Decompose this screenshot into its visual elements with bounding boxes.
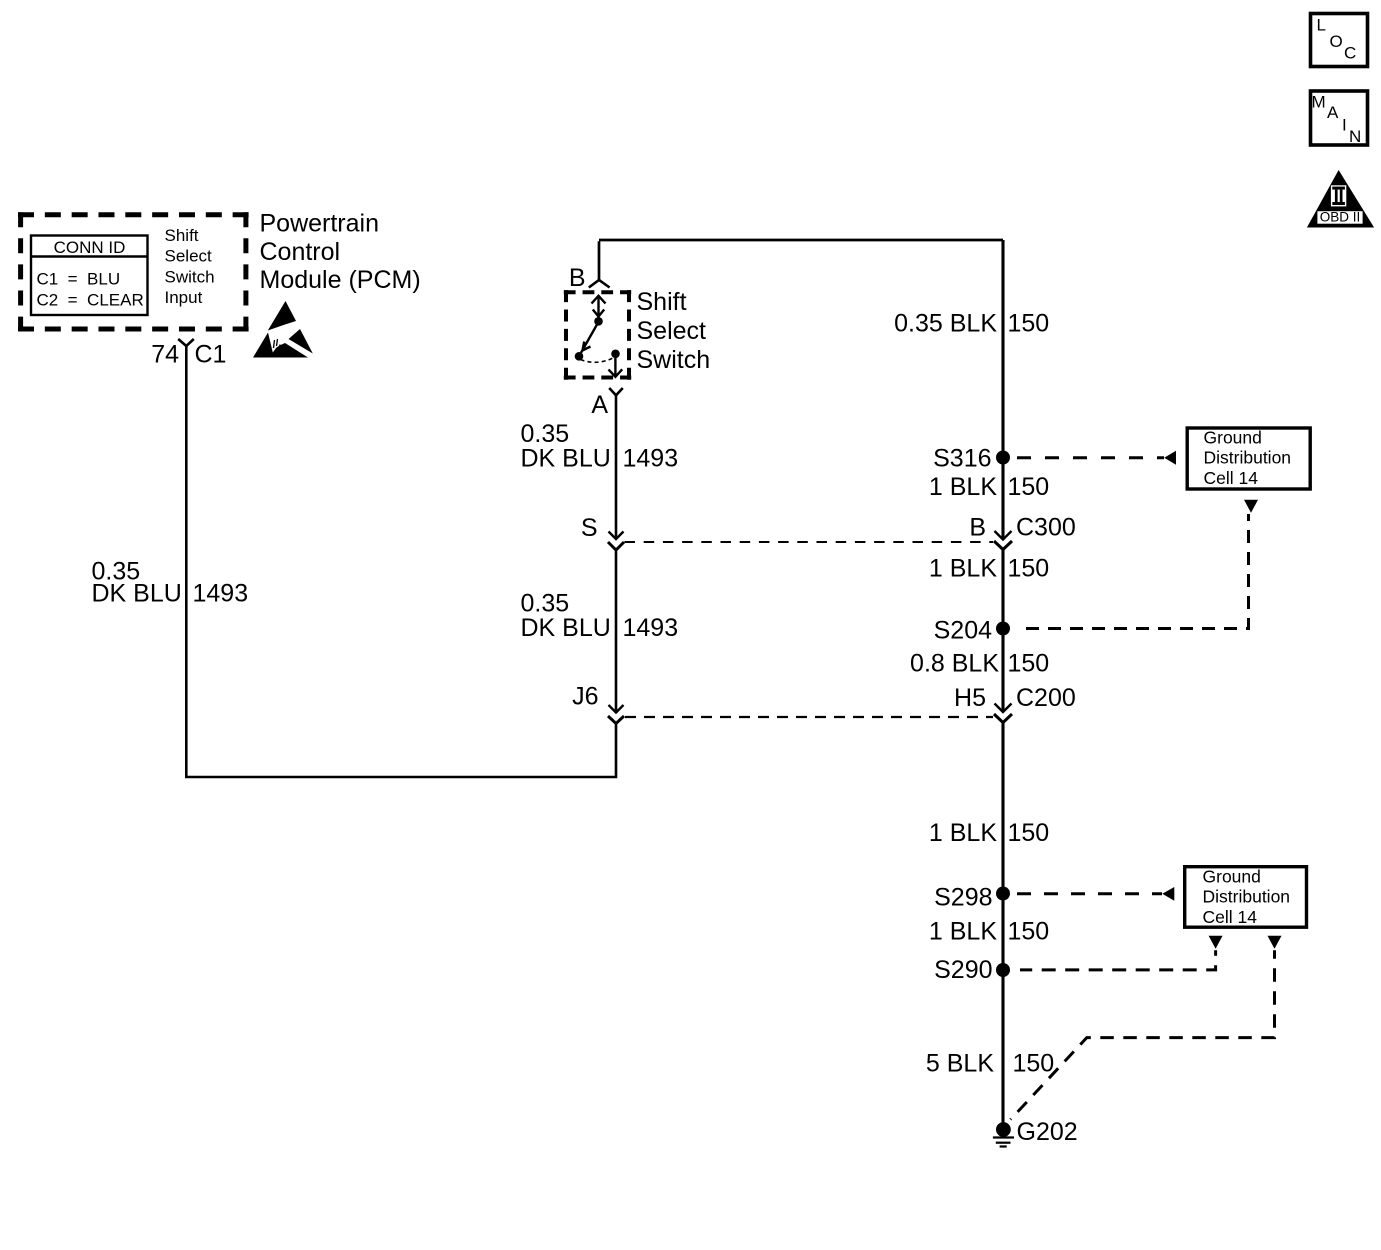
svg-text:DK BLU: DK BLU: [521, 445, 611, 473]
svg-text:150: 150: [1008, 555, 1050, 583]
svg-text:Switch: Switch: [165, 267, 215, 286]
svg-text:C300: C300: [1016, 514, 1076, 542]
svg-text:Distribution: Distribution: [1203, 887, 1291, 907]
svg-text:1 BLK: 1 BLK: [929, 555, 997, 583]
svg-text:Cell 14: Cell 14: [1204, 468, 1259, 488]
svg-text:H5: H5: [954, 684, 986, 712]
svg-text:S290: S290: [934, 956, 992, 984]
svg-text:O: O: [1330, 32, 1343, 51]
svg-text:G202: G202: [1017, 1118, 1078, 1146]
svg-text:S: S: [581, 514, 598, 542]
svg-text:Distribution: Distribution: [1204, 448, 1292, 468]
svg-text:Shift: Shift: [165, 226, 199, 245]
svg-text:DK BLU: DK BLU: [92, 580, 182, 608]
svg-text:74: 74: [151, 341, 179, 369]
svg-text:1493: 1493: [623, 445, 679, 473]
svg-text:Control: Control: [260, 238, 341, 266]
svg-text:B: B: [569, 264, 586, 292]
svg-text:B: B: [969, 514, 986, 542]
svg-text:Ground: Ground: [1204, 428, 1262, 448]
svg-text:0.8 BLK: 0.8 BLK: [910, 650, 999, 678]
svg-text:Input: Input: [165, 288, 203, 307]
svg-text:C200: C200: [1016, 684, 1076, 712]
svg-text:1 BLK: 1 BLK: [929, 819, 997, 847]
svg-text:Module (PCM): Module (PCM): [260, 266, 421, 294]
svg-text:S316: S316: [933, 445, 991, 473]
svg-text:A: A: [1327, 103, 1339, 122]
svg-text:Select: Select: [165, 247, 213, 266]
svg-text:J6: J6: [572, 683, 598, 711]
svg-text:DK BLU: DK BLU: [521, 614, 611, 642]
svg-text:C1 = BLU: C1 = BLU: [37, 270, 121, 289]
svg-text:Select: Select: [637, 317, 707, 345]
svg-text:Shift: Shift: [637, 288, 687, 316]
svg-text:S204: S204: [934, 617, 992, 645]
svg-text:150: 150: [1008, 918, 1050, 946]
svg-text:C: C: [1344, 44, 1356, 63]
svg-text:1493: 1493: [193, 580, 249, 608]
svg-text:C2 = CLEAR: C2 = CLEAR: [37, 291, 144, 310]
svg-text:Switch: Switch: [637, 346, 711, 374]
svg-text:CONN ID: CONN ID: [54, 238, 126, 257]
svg-text:M: M: [1312, 93, 1326, 112]
svg-text:OBD II: OBD II: [1320, 210, 1361, 225]
svg-text:1 BLK: 1 BLK: [929, 918, 997, 946]
svg-text:150: 150: [1008, 819, 1050, 847]
svg-text:1493: 1493: [623, 614, 679, 642]
svg-text:Powertrain: Powertrain: [260, 209, 380, 237]
svg-text:5 BLK: 5 BLK: [926, 1050, 994, 1078]
svg-text:C1: C1: [195, 341, 227, 369]
svg-text:1 BLK: 1 BLK: [929, 473, 997, 501]
svg-text:0.35 BLK: 0.35 BLK: [894, 310, 997, 338]
svg-text:S298: S298: [934, 884, 992, 912]
svg-text:150: 150: [1013, 1050, 1055, 1078]
svg-text:150: 150: [1008, 310, 1050, 338]
svg-text:N: N: [1349, 127, 1361, 146]
svg-text:I: I: [1342, 116, 1347, 135]
svg-text:A: A: [591, 391, 608, 419]
svg-text:L: L: [1317, 16, 1326, 35]
svg-text:150: 150: [1008, 650, 1050, 678]
svg-text:150: 150: [1008, 473, 1050, 501]
svg-text:Cell 14: Cell 14: [1203, 907, 1258, 927]
svg-text:Ground: Ground: [1203, 867, 1261, 887]
